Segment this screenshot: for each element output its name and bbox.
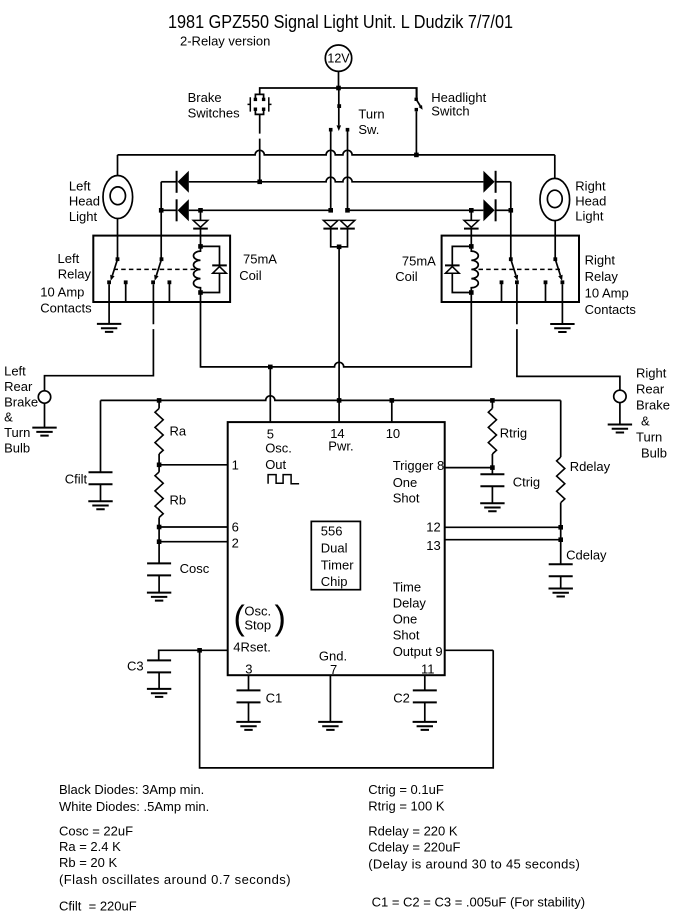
ground C2	[413, 722, 437, 730]
label C3	[127, 659, 144, 674]
label Left Head Light	[69, 179, 100, 225]
svg-text:Rb: Rb	[170, 493, 187, 508]
svg-text:Stop: Stop	[244, 618, 271, 633]
node diode join	[337, 245, 342, 250]
svg-text:White Diodes: .5Amp min.: White Diodes: .5Amp min.	[59, 799, 209, 814]
wire pin7 ground stem	[329, 675, 331, 722]
label Cdelay	[566, 548, 607, 563]
lamp left headlight	[103, 176, 133, 219]
wire pin10 drop	[391, 400, 393, 422]
svg-text:Cfilt = 220uF: Cfilt = 220uF	[59, 899, 137, 914]
svg-text:Rdelay: Rdelay	[570, 459, 611, 474]
node Ra top	[157, 398, 162, 403]
label U1 pin4 Rset	[233, 640, 271, 655]
svg-text:C3: C3	[127, 659, 144, 674]
svg-text:Light: Light	[575, 209, 604, 224]
svg-text:Rear: Rear	[4, 379, 33, 394]
label U1 Osc Stop	[234, 600, 286, 638]
label Headlight Switch	[431, 90, 486, 119]
node brake bus junction	[257, 180, 262, 185]
wire left bulb to relay	[117, 219, 119, 260]
turn switch SW2	[329, 88, 349, 132]
svg-text:Rtrig: Rtrig	[500, 426, 527, 441]
label U1 pin14 Pwr	[328, 426, 353, 454]
relay K2 stub contacts	[502, 284, 546, 302]
svg-text:Shot: Shot	[393, 491, 420, 506]
label Rtrig	[500, 426, 527, 441]
wire Rdelay top stem	[560, 400, 562, 457]
label Right Rear Brake Turn Bulb	[636, 366, 670, 461]
node left turn bus D junction	[159, 208, 164, 213]
svg-text:Cosc = 22uF: Cosc = 22uF	[59, 824, 133, 839]
wire right diode column	[510, 182, 512, 259]
node pin10 junction	[390, 398, 395, 403]
svg-text:Head: Head	[575, 194, 606, 209]
wire left turn bus a	[161, 209, 176, 211]
label U1 pin13	[426, 538, 440, 553]
wire pin12	[445, 526, 561, 528]
svg-text:Right: Right	[585, 253, 616, 268]
wire pin11 stem	[424, 675, 426, 690]
label U1 pin1	[232, 458, 239, 473]
wire C1 ground stem	[248, 702, 250, 722]
diode D9 flyback	[201, 246, 227, 292]
label Ra	[170, 424, 187, 439]
node Ra bottom	[157, 463, 162, 468]
svg-text:Bulb: Bulb	[641, 446, 667, 461]
label Right Relay 10 Amp Contacts	[585, 253, 637, 318]
node Rdelay pin13	[558, 537, 563, 542]
svg-text:Contacts: Contacts	[585, 302, 637, 317]
wire coil common rail	[201, 293, 472, 367]
wire pin6	[159, 526, 228, 528]
wire pin9	[445, 649, 494, 651]
label U1 pin10	[386, 426, 400, 441]
label Left Relay 10 Amp Contacts	[40, 251, 92, 316]
wire Cfilt stem	[100, 400, 102, 472]
wire left diode column	[160, 182, 162, 259]
wire Cfilt ground stem	[100, 484, 102, 501]
capacitor C2	[413, 690, 437, 702]
svg-text:Dual: Dual	[321, 541, 348, 556]
node right turn bus coil junction	[469, 208, 474, 213]
svg-text:75mA: 75mA	[402, 254, 436, 269]
svg-text:Cosc: Cosc	[180, 561, 210, 576]
svg-text:1: 1	[232, 458, 239, 473]
label Brake Switches	[188, 90, 241, 121]
wire brake bus middle	[189, 177, 484, 182]
svg-text:Pwr.: Pwr.	[328, 439, 353, 454]
note Cfilt value	[59, 899, 137, 914]
wire 12V stem	[338, 71, 340, 88]
node Rb pin6	[157, 525, 162, 530]
node Rtrig bottom	[490, 465, 495, 470]
svg-text:One: One	[393, 475, 418, 490]
note white diodes	[59, 799, 209, 814]
capacitor C1	[237, 690, 261, 702]
wire pin13	[445, 539, 561, 541]
svg-text:Right: Right	[636, 366, 667, 381]
lamp right headlight	[540, 178, 570, 220]
wire Ctrig stem	[491, 468, 493, 475]
svg-text:10 Amp: 10 Amp	[585, 286, 629, 301]
capacitor Cdelay	[549, 564, 573, 576]
svg-text:Turn: Turn	[4, 425, 30, 440]
wire Cosc stem	[158, 542, 160, 564]
svg-text:Turn: Turn	[636, 430, 662, 445]
label Left Rear Brake Turn Bulb	[4, 364, 38, 456]
svg-text:1981 GPZ550 Signal Light Unit.: 1981 GPZ550 Signal Light Unit. L Dudzik …	[168, 12, 513, 32]
label Right Head Light	[575, 179, 606, 224]
relay K2 box	[442, 236, 579, 302]
U1 square wave glyph	[268, 475, 299, 484]
label U1 Trigger One Shot	[393, 458, 445, 506]
node pin4 junction	[197, 648, 202, 653]
ground C3	[147, 689, 171, 697]
wire Cosc ground stem	[158, 575, 160, 592]
svg-text:Sw.: Sw.	[358, 122, 379, 137]
wire brake bus right	[496, 181, 511, 183]
node left turn bus end	[328, 208, 333, 213]
svg-text:3: 3	[245, 662, 252, 677]
svg-text:Switches: Switches	[188, 106, 241, 121]
relay K1 linkage dashed	[114, 268, 196, 270]
svg-text:Brake: Brake	[188, 90, 222, 105]
relay K2 coil	[469, 244, 478, 295]
wire right turn bus a	[348, 209, 484, 211]
svg-text:&: &	[641, 414, 650, 429]
ground Cfilt	[88, 501, 112, 509]
svg-text:(Flash oscillates around 0.7 s: (Flash oscillates around 0.7 seconds)	[59, 872, 291, 887]
wire right bulb to relay	[554, 221, 556, 260]
label C1	[266, 691, 283, 706]
node Rtrig top	[490, 398, 495, 403]
svg-text:11: 11	[421, 662, 435, 677]
label Turn Sw.	[358, 106, 384, 137]
diode D4	[483, 199, 495, 221]
svg-text:Brake: Brake	[4, 394, 38, 409]
svg-text:Light: Light	[69, 209, 98, 224]
resistor Rb	[155, 465, 163, 542]
wire headlight switch drop	[415, 111, 417, 155]
svg-text:Shot: Shot	[393, 628, 420, 643]
wire Cdelay stem	[560, 527, 562, 564]
svg-text:75mA: 75mA	[243, 252, 277, 267]
svg-text:10: 10	[386, 426, 400, 441]
label U1 Gnd	[319, 649, 347, 664]
lamp left rear bulb	[38, 391, 50, 403]
note Ra value	[59, 839, 121, 854]
wire K1 output	[45, 284, 154, 391]
wire C3 ground stem	[158, 672, 160, 689]
resistor Rtrig	[488, 400, 496, 467]
wire C2 ground stem	[424, 702, 426, 722]
svg-text:Cdelay: Cdelay	[566, 548, 607, 563]
svg-text:Ctrig: Ctrig	[513, 475, 540, 490]
svg-text:Rdelay = 220 K: Rdelay = 220 K	[368, 824, 458, 839]
svg-text:Right: Right	[575, 179, 606, 194]
svg-text:Rear: Rear	[636, 382, 665, 397]
svg-text:Osc.: Osc.	[244, 604, 271, 619]
label U1 Time Delay One Shot Output	[393, 580, 443, 660]
ground pin7	[318, 722, 342, 730]
label Rb	[170, 493, 187, 508]
svg-text:Coil: Coil	[239, 268, 262, 283]
svg-text:Osc.: Osc.	[265, 441, 292, 456]
diode D6	[464, 210, 479, 246]
node left turn bus coil junction	[198, 208, 203, 213]
node right turn bus D junction	[509, 208, 514, 213]
wire right turn bus b	[496, 209, 511, 211]
wire diode join	[331, 229, 348, 247]
wire brake switch drop	[259, 114, 261, 181]
svg-text:Head: Head	[69, 194, 100, 209]
capacitor Ctrig	[480, 474, 504, 486]
capacitor Cfilt	[89, 472, 113, 484]
ground left rear bulb	[32, 428, 56, 436]
node 12V junction	[336, 86, 341, 91]
wire brake bus left	[161, 181, 176, 183]
svg-text:Bulb: Bulb	[4, 441, 30, 456]
svg-text:Output 9: Output 9	[393, 644, 443, 659]
relay K1 pole1 contact	[107, 257, 127, 284]
relay K1 box	[93, 236, 230, 302]
label U1 pin6	[232, 520, 239, 535]
wire feedback rail	[200, 650, 494, 768]
relay K1 pole2 contact	[151, 257, 171, 284]
svg-text:One: One	[393, 612, 418, 627]
note Rtrig value	[368, 799, 445, 814]
svg-text:C1 = C2 = C3 = .005uF (For sta: C1 = C2 = C3 = .005uF (For stability)	[372, 895, 586, 910]
ground left relay	[97, 324, 121, 332]
brake switches SW1	[248, 94, 272, 114]
svg-text:Turn: Turn	[358, 106, 384, 121]
svg-text:C1: C1	[266, 691, 283, 706]
diode D5	[193, 210, 208, 246]
wire right bulb top	[554, 155, 556, 179]
node right turn bus start	[345, 208, 350, 213]
note delay time	[368, 857, 580, 872]
node Rb pin2	[157, 539, 162, 544]
svg-text:4Rset.: 4Rset.	[233, 640, 271, 655]
relay K2 pole1 contact	[500, 257, 519, 284]
wire Ctrig ground stem	[491, 486, 493, 503]
label U1 pin5	[267, 427, 274, 442]
wire left rear bulb ground stem	[44, 403, 46, 427]
svg-text:Contacts: Contacts	[40, 301, 92, 316]
svg-text:Left: Left	[58, 251, 80, 266]
wire Cdelay ground stem	[560, 576, 562, 588]
wire right turn drop	[347, 131, 349, 210]
label Ctrig	[513, 475, 540, 490]
svg-text:Cdelay = 220uF: Cdelay = 220uF	[368, 840, 460, 855]
ground Cdelay	[549, 589, 573, 597]
note Cdelay value	[368, 840, 460, 855]
wire pin3 stem	[248, 675, 250, 690]
wire headlight rail	[118, 150, 555, 155]
svg-text:13: 13	[426, 538, 440, 553]
wire pin5 drop	[269, 367, 271, 422]
label 75mA Coil right	[395, 254, 436, 285]
ground Ctrig	[480, 503, 504, 511]
wire left turn drop	[330, 131, 332, 210]
label 75mA Coil left	[239, 252, 277, 284]
svg-text:Timer: Timer	[321, 558, 354, 573]
svg-text:5: 5	[267, 427, 274, 442]
ground C1	[236, 722, 260, 730]
svg-text:Rtrig = 100 K: Rtrig = 100 K	[368, 799, 445, 814]
ground Cosc	[147, 593, 171, 601]
svg-text:Switch: Switch	[431, 104, 469, 119]
resistor Rdelay	[557, 457, 565, 527]
svg-text:): )	[275, 600, 286, 638]
resistor Ra	[155, 400, 163, 464]
node headlight rail junction	[414, 153, 419, 158]
svg-text:12V: 12V	[327, 52, 350, 66]
power source 12V	[325, 45, 351, 71]
svg-text:Black Diodes: 3Amp min.: Black Diodes: 3Amp min.	[59, 782, 204, 797]
note Rdelay value	[368, 824, 458, 839]
label Cfilt	[65, 472, 88, 487]
label C2	[393, 691, 410, 706]
svg-text:556: 556	[321, 524, 343, 539]
label U1 pin7	[330, 662, 337, 677]
note C1 C2 C3 value	[372, 895, 586, 910]
diode D1	[177, 171, 189, 193]
svg-text:Ra: Ra	[170, 424, 187, 439]
note Cosc value	[59, 824, 133, 839]
svg-text:2: 2	[232, 536, 239, 551]
IC U1 556 dual timer box	[228, 422, 445, 675]
note Rb value	[59, 855, 118, 870]
svg-text:12: 12	[426, 520, 440, 535]
node power rail junction	[337, 398, 342, 403]
wire left turn bus b	[189, 209, 331, 211]
svg-text:(Delay is around 30 to 45 seco: (Delay is around 30 to 45 seconds)	[368, 857, 580, 872]
svg-text:Chip: Chip	[321, 574, 348, 589]
relay K1 coil	[194, 244, 203, 295]
svg-text:Ra = 2.4 K: Ra = 2.4 K	[59, 839, 121, 854]
svg-text:Out: Out	[265, 457, 286, 472]
relay K2 pole2 contact	[544, 257, 565, 284]
relay K1 stub contacts	[126, 284, 170, 302]
label Rdelay	[570, 459, 611, 474]
svg-text:Brake: Brake	[636, 398, 670, 413]
wire pin8	[445, 467, 493, 469]
diode D2	[177, 199, 189, 221]
svg-text:Trigger 8: Trigger 8	[393, 458, 445, 473]
wire K1 NC to ground	[108, 284, 110, 324]
svg-text:Relay: Relay	[58, 267, 92, 282]
wire pin1	[159, 464, 228, 466]
lamp right rear bulb	[614, 390, 626, 402]
wire top supply rail	[260, 88, 417, 98]
label 556 Dual Timer Chip	[311, 521, 360, 589]
wire K2 output	[517, 284, 620, 390]
capacitor Cosc	[147, 563, 171, 575]
wire right rear bulb ground stem	[619, 403, 621, 425]
wire RC supply rail	[101, 396, 561, 401]
ground right relay	[550, 324, 574, 332]
note flash rate	[59, 872, 291, 887]
label U1 pin12	[426, 520, 440, 535]
capacitor C3	[147, 660, 171, 672]
node coil rail junction	[268, 365, 273, 370]
svg-text:C2: C2	[393, 691, 410, 706]
node Rdelay pin12	[558, 525, 563, 530]
note black diodes	[59, 782, 204, 797]
title text	[168, 12, 513, 32]
svg-text:6: 6	[232, 520, 239, 535]
svg-text:Coil: Coil	[395, 269, 418, 284]
ground right rear bulb	[608, 425, 632, 433]
svg-text:Cfilt: Cfilt	[65, 472, 88, 487]
relay K2 linkage dashed	[479, 268, 562, 270]
svg-text:10 Amp: 10 Amp	[40, 285, 84, 300]
svg-text:Ctrig = 0.1uF: Ctrig = 0.1uF	[368, 782, 444, 797]
svg-text:&: &	[4, 410, 13, 425]
wire left bulb top	[117, 155, 119, 176]
diode D3	[483, 171, 495, 193]
svg-text:2-Relay version: 2-Relay version	[180, 34, 270, 49]
svg-text:Left: Left	[69, 179, 91, 194]
svg-text:Rb = 20 K: Rb = 20 K	[59, 855, 118, 870]
diode D8	[340, 220, 355, 228]
label Cosc	[180, 561, 210, 576]
diode D10 flyback	[445, 246, 471, 292]
note Ctrig value	[368, 782, 444, 797]
wire pin4	[159, 650, 228, 660]
label U1 pin11	[421, 662, 435, 677]
svg-text:Left: Left	[4, 364, 26, 379]
headlight switch SW3	[415, 88, 423, 111]
svg-text:Relay: Relay	[585, 269, 619, 284]
label U1 pin3	[245, 662, 252, 677]
wire K2 NC to ground	[561, 284, 563, 324]
diode D7	[323, 220, 338, 228]
svg-text:7: 7	[330, 662, 337, 677]
label U1 pin2	[232, 536, 239, 551]
label U1 Osc Out	[265, 441, 292, 473]
svg-text:Delay: Delay	[393, 596, 427, 611]
wire 556 power line	[338, 247, 340, 422]
subtitle 2-Relay version	[180, 34, 270, 49]
wire pin2	[159, 541, 228, 543]
svg-text:Time: Time	[393, 580, 421, 595]
